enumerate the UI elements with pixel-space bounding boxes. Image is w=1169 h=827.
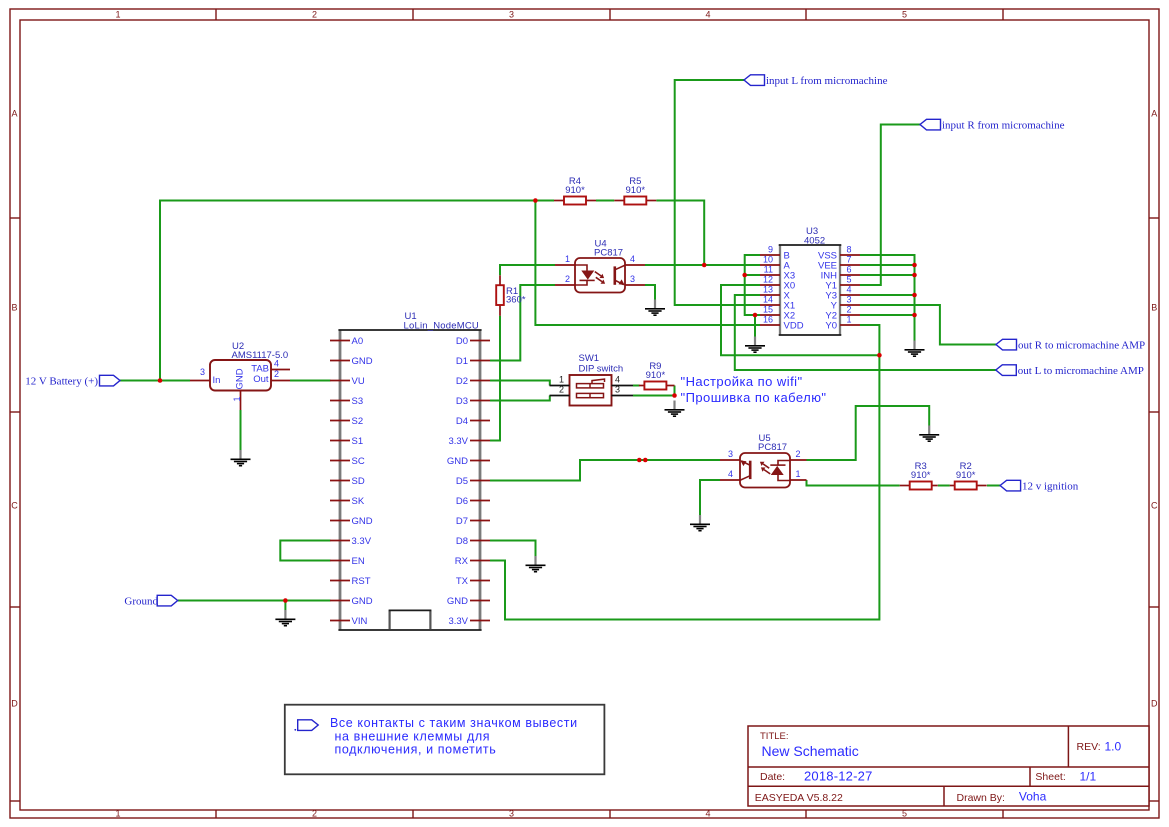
svg-text:360*: 360* <box>506 294 526 305</box>
resistor R5 <box>614 176 656 204</box>
svg-text:14: 14 <box>763 295 773 305</box>
U1 right pin D3 <box>456 396 490 407</box>
svg-text:910*: 910* <box>565 185 585 196</box>
svg-text:VIN: VIN <box>352 616 368 627</box>
IC U3 4052 <box>779 226 842 335</box>
wire U2 GND to ground <box>240 410 242 450</box>
U1 right pin D7 <box>456 516 490 527</box>
svg-text:GND: GND <box>447 596 468 607</box>
svg-text:B: B <box>1151 303 1157 313</box>
svg-text:D: D <box>11 699 18 709</box>
wire U4 pin4 to U3 pin10 A <box>645 264 760 266</box>
resistor R1 <box>496 275 526 316</box>
U3 pin 10 A <box>760 255 791 272</box>
svg-text:D3: D3 <box>456 396 468 407</box>
U1 right pin GND <box>447 596 490 607</box>
svg-text:на внешние клеммы для: на внешние клеммы для <box>335 729 491 743</box>
U1 right pin D0 <box>456 336 490 347</box>
SW1 pin 4 <box>612 374 634 385</box>
svg-text:2: 2 <box>312 10 317 20</box>
U3 pin 7 VEE <box>818 255 860 272</box>
wire SW1 pin4 to R9 <box>633 385 640 387</box>
svg-text:REV:: REV: <box>1077 741 1101 753</box>
svg-text:4: 4 <box>705 809 710 819</box>
svg-text:input L from micromachine: input L from micromachine <box>766 75 888 87</box>
U1 right pin D1 <box>456 356 490 367</box>
junction X3 node <box>742 273 747 278</box>
svg-text:3: 3 <box>847 295 852 305</box>
svg-text:1: 1 <box>847 315 852 325</box>
U1 left pin EN <box>330 556 365 567</box>
U2 pin 4 TAB <box>271 359 290 370</box>
svg-text:TITLE:: TITLE: <box>760 731 789 742</box>
wire R2 to 12v ignition flag <box>987 485 1000 487</box>
junction X2 ground node <box>753 313 758 318</box>
svg-text:4052: 4052 <box>804 236 825 247</box>
svg-text:C: C <box>1151 501 1158 511</box>
optocoupler U4 PC817 <box>575 239 625 293</box>
ground at Ground flag <box>275 610 295 626</box>
U3 pin 14 X1 <box>760 295 795 312</box>
svg-text:D1: D1 <box>456 356 468 367</box>
svg-text:Drawn By:: Drawn By: <box>957 792 1005 804</box>
U1 right pin D5 <box>456 476 490 487</box>
svg-text:EN: EN <box>352 556 365 567</box>
net flag input R from micromachine <box>920 119 1065 131</box>
svg-text:A: A <box>11 109 17 119</box>
wire U5 pin2 to ground <box>807 406 930 460</box>
U3 pin 11 X3 <box>760 265 795 282</box>
wire U3 INH to bus <box>860 274 915 276</box>
U3 pin 9 B <box>760 245 790 262</box>
svg-text:2: 2 <box>565 274 570 284</box>
junction SW1 ground node <box>672 393 677 398</box>
junction VEE bus <box>912 263 917 268</box>
U4 pin 4 <box>625 254 645 265</box>
wire U5 pin1 to R3 <box>807 480 900 486</box>
U1 left pin GND <box>330 356 373 367</box>
svg-text:D6: D6 <box>456 496 468 507</box>
U3 pin 13 X <box>760 285 791 302</box>
junction Ground flag node <box>283 598 288 603</box>
U3 pin 15 X2 <box>760 305 795 322</box>
U5 pin 4 <box>720 469 740 480</box>
junction node A <box>702 263 707 268</box>
note box <box>285 705 605 775</box>
wire U1 D1 to U4 pin2 <box>490 285 555 361</box>
ground U3 right <box>905 341 925 357</box>
U1 right pin GND <box>447 456 490 467</box>
svg-text:7: 7 <box>847 255 852 265</box>
U1 right pin RX <box>455 556 490 567</box>
svg-text:input R from micromachine: input R from micromachine <box>942 120 1065 132</box>
svg-text:1: 1 <box>796 469 801 479</box>
svg-text:GND: GND <box>352 596 373 607</box>
svg-text:4: 4 <box>847 285 852 295</box>
wire U1 D3 to SW1 pin2 <box>490 396 550 401</box>
wire input R flag to U3 Y1 <box>860 125 920 286</box>
wire U3 Y2 to bus <box>860 314 915 316</box>
svg-text:5: 5 <box>902 809 907 819</box>
U1 left pin VU <box>330 376 365 387</box>
wire U3 Y3 to bus <box>860 294 915 296</box>
svg-text:13: 13 <box>763 285 773 295</box>
SW1 pin 1 <box>550 374 570 385</box>
resistor R9 <box>639 361 675 389</box>
U1 right pin D6 <box>456 496 490 507</box>
U1 left pin SD <box>330 476 365 487</box>
U4 pin 2 <box>555 274 575 285</box>
svg-text:SD: SD <box>352 476 365 487</box>
U1 left pin 3.3V <box>330 536 372 547</box>
svg-text:5: 5 <box>847 275 852 285</box>
svg-text:VU: VU <box>352 376 365 387</box>
regulator U2 AMS1117-5.0 <box>210 341 288 391</box>
resistor R3 <box>900 461 938 489</box>
ground U5 pin2 net <box>919 426 939 442</box>
wire R1 bottom to U1 3.3V <box>490 316 500 441</box>
U2 pin 3 In <box>190 367 210 381</box>
IC U1 LoLin_NodeMCU <box>338 311 481 630</box>
SW1 pin 2 <box>550 384 570 395</box>
svg-text:GND: GND <box>447 456 468 467</box>
wire U3 B X3 X2 bus <box>745 255 760 315</box>
U1 left pin GND <box>330 596 373 607</box>
svg-text:9: 9 <box>768 245 773 255</box>
svg-text:4: 4 <box>274 359 279 369</box>
svg-text:10: 10 <box>763 255 773 265</box>
U1 right pin D2 <box>456 376 490 387</box>
svg-text:910*: 910* <box>956 470 976 481</box>
wire U2 Out to U1 VU <box>290 380 331 382</box>
wire U4 pin3 to ground <box>645 285 655 300</box>
net flag 12 v ignition <box>1000 480 1079 492</box>
wire 12V battery flag to U2 In <box>120 380 190 382</box>
wire U1 D8 to ground <box>490 541 536 557</box>
U1 left pin S1 <box>330 436 363 447</box>
ground at U1 D8 <box>526 556 546 572</box>
svg-text:1: 1 <box>565 254 570 264</box>
junction D5 node 1 <box>637 458 642 463</box>
svg-text:In: In <box>213 375 221 386</box>
ground U3 left <box>745 337 765 353</box>
U3 pin 8 VSS <box>818 245 860 262</box>
wire SW1 pin3 to ground node <box>633 395 675 397</box>
U1 left pin A0 <box>330 336 363 347</box>
svg-text:D4: D4 <box>456 416 468 427</box>
wire U4 pin1 to R1 top <box>500 265 555 275</box>
svg-text:Out: Out <box>253 374 269 385</box>
wire Ground flag node drop <box>284 601 286 611</box>
wire U1 D2 to SW1 pin1 <box>490 381 550 386</box>
U3 pin 3 Y <box>831 295 860 312</box>
junction INH bus <box>912 273 917 278</box>
wire input L flag to U3 X1 <box>675 80 760 305</box>
ground at SW1/R9 <box>665 401 685 417</box>
U3 pin 5 Y1 <box>825 275 860 292</box>
optocoupler U5 PC817 <box>740 433 790 488</box>
svg-text:2: 2 <box>312 809 317 819</box>
svg-text:DIP switch: DIP switch <box>579 363 624 374</box>
svg-text:D7: D7 <box>456 516 468 527</box>
ground U5 pin4 <box>690 515 710 531</box>
svg-text:"Прошивка по кабелю": "Прошивка по кабелю" <box>681 390 827 405</box>
resistor R2 <box>950 461 987 489</box>
svg-text:RST: RST <box>352 576 371 587</box>
U1 right pin D8 <box>456 536 490 547</box>
svg-text:GND: GND <box>235 368 246 389</box>
svg-text:3: 3 <box>509 809 514 819</box>
svg-text:3: 3 <box>615 384 620 394</box>
svg-text:B: B <box>11 303 17 313</box>
svg-text:2: 2 <box>796 449 801 459</box>
svg-text:AMS1117-5.0: AMS1117-5.0 <box>232 350 289 361</box>
wire 3.3V-EN loop <box>280 541 330 561</box>
U1 right pin 3.3V <box>448 616 490 627</box>
net flag Ground <box>124 595 177 607</box>
svg-text:12 V Battery (+): 12 V Battery (+) <box>25 375 98 387</box>
svg-text:3.3V: 3.3V <box>448 616 468 627</box>
U1 left pin S3 <box>330 396 363 407</box>
svg-text:PC817: PC817 <box>758 442 787 453</box>
svg-text:2: 2 <box>847 305 852 315</box>
svg-text:1.0: 1.0 <box>1105 740 1122 754</box>
svg-text:RX: RX <box>455 556 469 567</box>
label Nastroyka po wifi <box>681 374 803 389</box>
svg-text:4: 4 <box>630 254 635 264</box>
svg-text:Y0: Y0 <box>825 320 837 331</box>
svg-text:1: 1 <box>232 396 242 401</box>
svg-text:2018-12-27: 2018-12-27 <box>804 769 873 784</box>
U1 right pin 3.3V <box>448 436 490 447</box>
svg-text:3.3V: 3.3V <box>448 436 468 447</box>
svg-text:910*: 910* <box>911 470 931 481</box>
svg-text:C: C <box>11 501 18 511</box>
wire U3 X0 to node <box>721 285 879 355</box>
wire X2 ground drop <box>754 315 756 337</box>
svg-text:"Настройка по wifi": "Настройка по wifi" <box>681 374 803 389</box>
svg-text:VDD: VDD <box>784 320 804 331</box>
U3 pin 1 Y0 <box>825 315 860 332</box>
svg-text:6: 6 <box>847 265 852 275</box>
svg-text:D8: D8 <box>456 536 468 547</box>
junction Y3 bus <box>912 293 917 298</box>
svg-text:1: 1 <box>115 10 120 20</box>
svg-text:4: 4 <box>705 10 710 20</box>
wire U3 VSS bus vertical <box>860 255 915 341</box>
svg-text:EASYEDA V5.8.22: EASYEDA V5.8.22 <box>755 792 843 804</box>
svg-text:2: 2 <box>559 384 564 394</box>
svg-text:A0: A0 <box>352 336 364 347</box>
switch SW1 DIP switch <box>570 353 624 406</box>
net flag out L to micromachine AMP <box>996 365 1144 377</box>
svg-text:A: A <box>1151 109 1157 119</box>
title block <box>748 726 1149 806</box>
svg-text:16: 16 <box>763 315 773 325</box>
svg-text:TX: TX <box>456 576 469 587</box>
wire U3 X to out L flag <box>735 295 996 370</box>
svg-text:SC: SC <box>352 456 365 467</box>
junction battery node <box>158 378 163 383</box>
U3 pin 12 X0 <box>760 275 795 292</box>
svg-text:5: 5 <box>902 10 907 20</box>
svg-text:4: 4 <box>615 374 620 384</box>
svg-text:3: 3 <box>509 10 514 20</box>
U1 left pin S2 <box>330 416 363 427</box>
svg-text:out R to micromachine AMP: out R to micromachine AMP <box>1018 340 1145 352</box>
svg-text:3: 3 <box>728 449 733 459</box>
U5 pin 2 <box>790 449 807 460</box>
svg-text:1/1: 1/1 <box>1080 770 1097 784</box>
svg-text:Все контакты с таким значком в: Все контакты с таким значком вывести <box>330 716 578 730</box>
U1 left pin SC <box>330 456 365 467</box>
junction VDD rail <box>533 198 538 203</box>
svg-text:1: 1 <box>115 809 120 819</box>
resistor R4 <box>554 176 596 204</box>
svg-text:New Schematic: New Schematic <box>762 743 859 759</box>
wire R9 right bend <box>674 386 676 396</box>
svg-text:D: D <box>1151 699 1158 709</box>
svg-text:910*: 910* <box>646 370 666 381</box>
wire U1 D5 to U5 pin3 <box>490 460 720 481</box>
svg-text:3.3V: 3.3V <box>352 536 372 547</box>
svg-text:S3: S3 <box>352 396 364 407</box>
U2 pin 1 GND <box>232 391 242 411</box>
svg-text:Date:: Date: <box>760 771 785 783</box>
net flag out R to micromachine AMP <box>996 339 1145 351</box>
svg-text:Ground: Ground <box>124 596 158 608</box>
svg-text:2: 2 <box>274 369 279 379</box>
svg-text:Voha: Voha <box>1019 790 1047 804</box>
svg-text:LoLin_NodeMCU: LoLin_NodeMCU <box>404 320 479 331</box>
wire U5 pin4 to ground <box>700 480 720 515</box>
svg-text:15: 15 <box>763 305 773 315</box>
svg-text:подключения, и пометить: подключения, и пометить <box>335 743 497 757</box>
ground under U2 <box>231 450 251 466</box>
junction X0-Y0 node <box>877 353 882 358</box>
U5 pin 3 <box>720 449 740 460</box>
wire U3 Y to out R flag <box>860 305 996 345</box>
svg-text:GND: GND <box>352 356 373 367</box>
label Proshivka po kabelyu <box>681 390 827 405</box>
wire between R4 and R5 <box>596 200 614 202</box>
U1 left pin RST <box>330 576 371 587</box>
wire VDD branch to U3 pin16 <box>535 201 760 326</box>
net flag 12 V Battery (+) <box>25 375 120 387</box>
U3 pin 2 Y2 <box>825 305 860 322</box>
U5 pin 1 <box>790 469 807 480</box>
svg-text:1: 1 <box>559 374 564 384</box>
U1 left pin SK <box>330 496 365 507</box>
ground under U4 <box>645 300 665 316</box>
svg-text:PC817: PC817 <box>594 247 623 258</box>
wire R5 to node A <box>656 201 704 266</box>
svg-text:S1: S1 <box>352 436 364 447</box>
U4 pin 1 <box>555 254 575 265</box>
wire U3 VEE to bus <box>860 264 915 266</box>
svg-text:GND: GND <box>352 516 373 527</box>
svg-text:Sheet:: Sheet: <box>1035 771 1065 783</box>
svg-text:D2: D2 <box>456 376 468 387</box>
junction D5 node 2 <box>643 458 648 463</box>
svg-text:8: 8 <box>847 245 852 255</box>
svg-text:SK: SK <box>352 496 365 507</box>
U1 right pin D4 <box>456 416 490 427</box>
wire U1 RX to U3 Y0 <box>490 325 879 620</box>
svg-text:3: 3 <box>200 367 205 377</box>
svg-text:3: 3 <box>630 274 635 284</box>
net flag input L from micromachine <box>744 75 888 87</box>
U3 pin 6 INH <box>821 265 860 282</box>
svg-text:12: 12 <box>763 275 773 285</box>
svg-text:12 v ignition: 12 v ignition <box>1022 480 1079 492</box>
U1 left pin VIN <box>330 616 367 627</box>
U2 pin 2 Out <box>271 369 290 380</box>
junction Y2 bus <box>912 313 917 318</box>
svg-text:D5: D5 <box>456 476 468 487</box>
U1 right pin TX <box>456 576 490 587</box>
U4 pin 3 <box>625 274 645 285</box>
wire Ground flag to U1 GND <box>178 600 331 602</box>
wire between R3 and R2 <box>938 485 950 487</box>
svg-text:11: 11 <box>764 265 773 275</box>
note flag symbol <box>294 720 318 731</box>
svg-text:D0: D0 <box>456 336 468 347</box>
SW1 pin 3 <box>612 384 634 395</box>
svg-text:out L to micromachine AMP: out L to micromachine AMP <box>1018 365 1144 377</box>
U1 left pin GND <box>330 516 373 527</box>
wire 12V battery vertical up to R4 rail <box>160 201 554 381</box>
U3 pin 4 Y3 <box>825 285 860 302</box>
svg-text:910*: 910* <box>626 185 646 196</box>
svg-text:4: 4 <box>728 469 733 479</box>
U3 pin 16 VDD <box>760 315 804 332</box>
svg-text:S2: S2 <box>352 416 364 427</box>
